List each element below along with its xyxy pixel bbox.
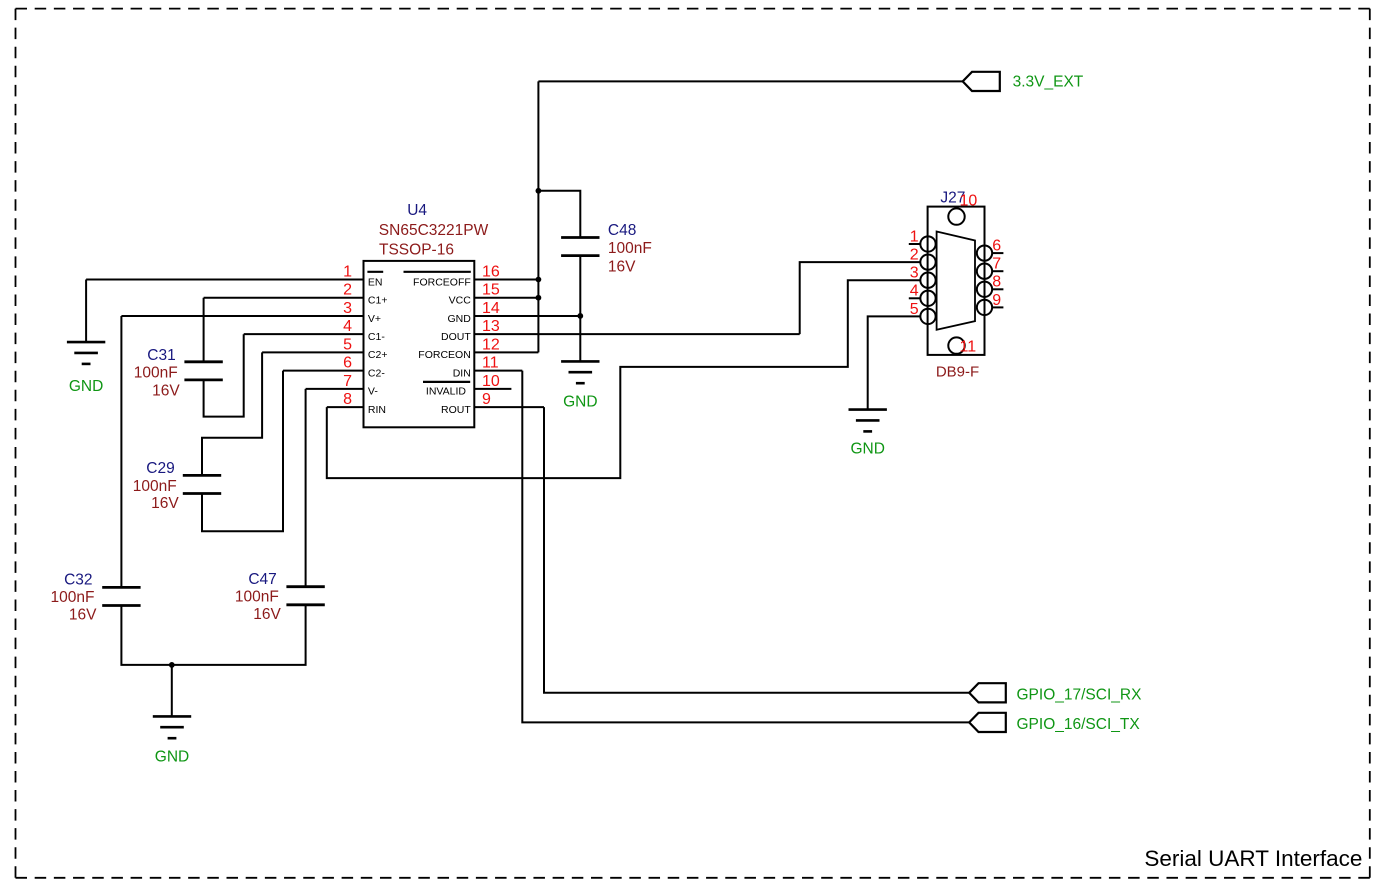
DB9 pin 6 stub bbox=[992, 252, 1003, 254]
DB9 pin 6 circle bbox=[977, 245, 992, 260]
svg-text:100nF: 100nF bbox=[51, 589, 95, 606]
svg-text:16V: 16V bbox=[151, 495, 179, 512]
svg-text:C31: C31 bbox=[147, 347, 175, 364]
svg-text:100nF: 100nF bbox=[133, 478, 177, 495]
svg-text:8: 8 bbox=[992, 274, 1001, 291]
svg-text:9: 9 bbox=[992, 292, 1001, 309]
wire C32 bottom to ground rail bbox=[121, 605, 305, 665]
junction C48 branch bbox=[536, 188, 542, 194]
ground GND (caps) bbox=[153, 716, 191, 765]
wire 3.3V_EXT horizontal bbox=[538, 80, 962, 82]
wire ROUT to GPIO_17 bbox=[544, 407, 969, 693]
wire RIN to DB9 pin3 bbox=[327, 280, 921, 478]
svg-text:TSSOP-16: TSSOP-16 bbox=[379, 242, 454, 259]
junction pin15 bbox=[536, 295, 542, 301]
svg-text:1: 1 bbox=[343, 264, 352, 281]
svg-text:16V: 16V bbox=[69, 607, 97, 624]
svg-text:10: 10 bbox=[960, 193, 978, 210]
svg-text:C2-: C2- bbox=[368, 367, 385, 379]
DB9 pin 3 circle bbox=[920, 273, 935, 288]
svg-text:3: 3 bbox=[343, 300, 352, 317]
svg-text:3.3V_EXT: 3.3V_EXT bbox=[1013, 74, 1084, 91]
svg-text:100nF: 100nF bbox=[608, 240, 652, 257]
wire C48 bottom to ground bbox=[579, 256, 581, 362]
wire pin4 C1- bbox=[244, 333, 364, 335]
overbar INVALID bbox=[423, 381, 470, 383]
svg-text:DB9-F: DB9-F bbox=[936, 363, 979, 380]
svg-text:C1+: C1+ bbox=[368, 295, 388, 307]
svg-text:8: 8 bbox=[343, 391, 352, 408]
svg-text:ROUT: ROUT bbox=[441, 404, 471, 416]
svg-text:6: 6 bbox=[992, 238, 1001, 255]
stub pin10 INVALID bbox=[474, 388, 511, 390]
port 3.3V_EXT bbox=[963, 72, 1084, 91]
DB9 pin 2 circle bbox=[920, 254, 935, 269]
svg-text:DIN: DIN bbox=[453, 367, 471, 379]
svg-text:GND: GND bbox=[447, 313, 471, 325]
wire pin12 FORCEON bbox=[474, 351, 538, 353]
wire pin13 DOUT bbox=[474, 333, 799, 335]
wire rail down to GND bbox=[171, 665, 173, 717]
wire DIN to GPIO_16 bbox=[522, 371, 969, 723]
wire pin5 C2+ bbox=[262, 351, 363, 353]
svg-text:GPIO_16/SCI_TX: GPIO_16/SCI_TX bbox=[1017, 716, 1141, 733]
svg-text:10: 10 bbox=[482, 373, 500, 390]
capacitor C47 bbox=[286, 587, 324, 605]
svg-text:FORCEON: FORCEON bbox=[418, 349, 471, 361]
wire C31 bottom to pin4 C1- bbox=[204, 334, 244, 416]
wire branch to C48 bbox=[538, 191, 580, 238]
wire DB9 pin5 to ground bbox=[868, 316, 921, 409]
wire V- down to C47 bbox=[305, 389, 307, 587]
DB9 pin 1 stub bbox=[909, 243, 921, 245]
svg-text:INVALID: INVALID bbox=[426, 386, 466, 398]
svg-text:16V: 16V bbox=[152, 382, 180, 399]
svg-text:Serial UART Interface: Serial UART Interface bbox=[1144, 846, 1362, 871]
overbar EN bbox=[367, 271, 383, 273]
wire 3.3V_EXT vertical bbox=[537, 81, 539, 352]
wire pin11 DIN bbox=[474, 370, 522, 372]
svg-text:9: 9 bbox=[482, 391, 491, 408]
port GPIO_17/SCI_RX bbox=[969, 683, 1142, 703]
DB9 pin 5 circle bbox=[920, 309, 935, 324]
wire EN down bbox=[85, 280, 87, 343]
wire pin2 C1+ bbox=[204, 297, 364, 299]
svg-text:11: 11 bbox=[482, 355, 499, 372]
DB9 pin 9 circle bbox=[977, 300, 992, 315]
svg-text:2: 2 bbox=[343, 282, 352, 299]
DB9 pin 9 stub bbox=[992, 306, 1003, 308]
svg-text:13: 13 bbox=[482, 318, 500, 335]
ground GND (DB9) bbox=[849, 410, 887, 458]
svg-text:V+: V+ bbox=[368, 313, 381, 325]
svg-text:GPIO_17/SCI_RX: GPIO_17/SCI_RX bbox=[1017, 686, 1143, 703]
svg-text:7: 7 bbox=[992, 256, 1001, 273]
svg-text:5: 5 bbox=[910, 301, 919, 318]
op-amp/IC U4 SN65C3221PW body bbox=[364, 261, 475, 427]
svg-text:C32: C32 bbox=[64, 571, 92, 588]
svg-text:FORCEOFF: FORCEOFF bbox=[413, 276, 471, 288]
capacitor C31 bbox=[184, 362, 222, 380]
svg-text:4: 4 bbox=[343, 318, 352, 335]
svg-text:16V: 16V bbox=[608, 258, 636, 275]
svg-text:16: 16 bbox=[482, 264, 500, 281]
overbar FORCEOFF bbox=[404, 271, 471, 273]
ground GND (C48) bbox=[561, 361, 599, 410]
wire pin8 RIN bbox=[327, 406, 364, 408]
wire pin15 VCC bbox=[474, 297, 538, 299]
wire pin3 V+ bbox=[121, 315, 363, 317]
capacitor C32 bbox=[102, 587, 140, 605]
svg-text:2: 2 bbox=[910, 247, 919, 264]
svg-text:GND: GND bbox=[69, 378, 103, 395]
svg-text:GND: GND bbox=[155, 749, 189, 766]
DB9 D-shape bbox=[937, 232, 975, 330]
svg-text:14: 14 bbox=[482, 300, 500, 317]
svg-text:GND: GND bbox=[850, 440, 884, 457]
junction ground rail bbox=[169, 662, 175, 668]
svg-text:C1-: C1- bbox=[368, 331, 385, 343]
wire C1+ down to C31 bbox=[203, 298, 205, 362]
DB9 pin 10 circle bbox=[948, 208, 964, 224]
port GPIO_16/SCI_TX bbox=[969, 713, 1140, 733]
svg-text:DOUT: DOUT bbox=[441, 331, 471, 343]
wire pin16 FORCEOFF bbox=[474, 279, 538, 281]
wire pin1 EN to GND bbox=[86, 279, 363, 281]
wire C2+ jog down to C29 bbox=[202, 352, 262, 475]
svg-text:EN: EN bbox=[368, 276, 383, 288]
capacitor C29 bbox=[183, 475, 221, 493]
DB9 pin 7 stub bbox=[992, 270, 1003, 272]
svg-text:4: 4 bbox=[910, 283, 919, 300]
svg-text:GND: GND bbox=[563, 393, 597, 410]
DB9 pin 8 stub bbox=[992, 288, 1003, 290]
svg-text:SN65C3221PW: SN65C3221PW bbox=[379, 222, 489, 239]
svg-text:5: 5 bbox=[343, 336, 352, 353]
svg-text:C29: C29 bbox=[146, 460, 174, 477]
svg-text:C48: C48 bbox=[608, 222, 636, 239]
wire pin7 V- bbox=[306, 388, 364, 390]
DB9 pin 4 stub bbox=[909, 297, 921, 299]
svg-text:RIN: RIN bbox=[368, 404, 386, 416]
wire C29 bottom to pin6 C2- bbox=[202, 371, 283, 532]
DB9 pin 1 circle bbox=[920, 236, 935, 251]
svg-text:VCC: VCC bbox=[449, 295, 472, 307]
svg-text:100nF: 100nF bbox=[235, 588, 279, 605]
ground GND (EN) bbox=[67, 342, 105, 395]
svg-text:3: 3 bbox=[910, 265, 919, 282]
junction GND pin14 bbox=[577, 313, 583, 319]
svg-text:V-: V- bbox=[368, 386, 378, 398]
DB9 pin 11 circle bbox=[948, 337, 964, 353]
svg-text:12: 12 bbox=[482, 336, 500, 353]
connector J27 DB9-F body bbox=[928, 207, 985, 355]
svg-text:C47: C47 bbox=[248, 571, 276, 588]
wire V+ down to C32 bbox=[120, 316, 122, 587]
junction pin16 bbox=[536, 277, 542, 283]
capacitor C48 bbox=[561, 238, 599, 256]
DB9 pin 4 circle bbox=[920, 291, 935, 306]
wire pin14 GND bbox=[474, 315, 580, 317]
wire pin9 ROUT bbox=[474, 406, 544, 408]
DB9 pin 8 circle bbox=[977, 282, 992, 297]
svg-text:6: 6 bbox=[343, 355, 352, 372]
DB9 pin 7 circle bbox=[977, 264, 992, 279]
svg-text:C2+: C2+ bbox=[368, 349, 388, 361]
svg-text:7: 7 bbox=[343, 373, 352, 390]
svg-text:100nF: 100nF bbox=[134, 365, 178, 382]
svg-text:16V: 16V bbox=[253, 606, 281, 623]
svg-text:1: 1 bbox=[910, 228, 919, 245]
svg-text:11: 11 bbox=[960, 338, 977, 355]
wire pin6 C2- bbox=[283, 370, 364, 372]
wire DOUT to DB9 pin2 bbox=[800, 262, 921, 334]
svg-text:U4: U4 bbox=[407, 202, 427, 219]
svg-text:15: 15 bbox=[482, 282, 500, 299]
